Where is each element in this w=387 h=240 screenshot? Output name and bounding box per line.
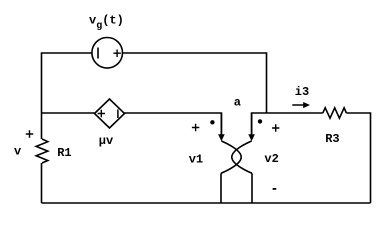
svg-text:μv: μv (99, 134, 113, 148)
label - (v2 polarity) (273, 188, 277, 190)
svg-text:vg(t): vg(t) (89, 14, 124, 33)
svg-text:i3: i3 (295, 85, 309, 99)
wire: middle rail from left vertical to mu-v source (42, 112, 95, 114)
winding 1 arrow shaft (220, 113, 222, 135)
wire: right winding corner up to node a rail toward R3 (252, 113, 323, 135)
winding 1 lower lead (box left side) (220, 173, 222, 203)
resistor R1 (36, 139, 48, 163)
winding 1 arrowhead (218, 134, 225, 141)
dependent source mu-v (diamond) (95, 99, 125, 128)
current i3 arrowhead (303, 102, 310, 108)
label + (v1 polarity) (192, 124, 199, 131)
resistor R3 (323, 108, 347, 118)
svg-text:a: a (234, 95, 241, 109)
wire: top rail right of source with corner down to node a (122, 53, 266, 113)
svg-text:R3: R3 (325, 132, 339, 146)
current i3 arrow shaft (292, 104, 304, 106)
wire: left vertical (top rail to R1 top) with top-left corner (42, 53, 93, 139)
wire: R3 to top-right corner and right vertical (346, 113, 370, 203)
winding 2 polarity dot (258, 119, 262, 123)
wire: left vertical below R1 (41, 163, 43, 203)
plus inside diamond (98, 110, 105, 117)
minus bar inside diamond (117, 110, 119, 119)
label + (v2 polarity) (272, 124, 279, 131)
winding 2 crossing curve (232, 141, 252, 173)
winding 2 arrowhead (248, 134, 255, 141)
winding 2 lower lead (box right side) (251, 173, 253, 203)
wire: middle rail from mu-v source to left winding corner (125, 113, 222, 135)
plus inside vg source (113, 50, 121, 58)
winding 1 crossing curve (221, 141, 241, 173)
wire: bottom rail (42, 202, 371, 204)
svg-text:R1: R1 (57, 146, 71, 160)
svg-text:v1: v1 (189, 152, 203, 166)
label + (v polarity) (26, 130, 33, 137)
svg-text:v: v (14, 145, 21, 159)
winding 2 arrow shaft (251, 113, 253, 135)
voltage source vg(t) U1 (92, 38, 123, 69)
minus bar inside vg source (97, 48, 99, 59)
winding 1 polarity dot (210, 120, 214, 124)
svg-text:v2: v2 (264, 152, 278, 166)
